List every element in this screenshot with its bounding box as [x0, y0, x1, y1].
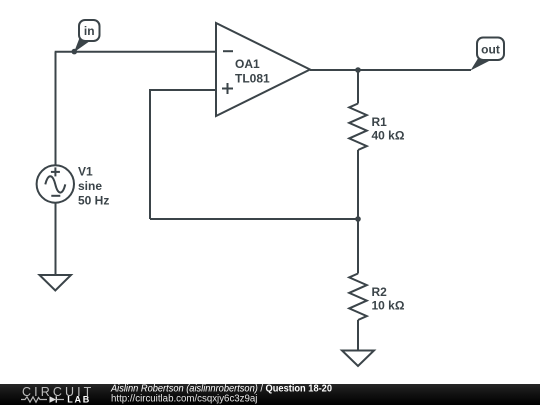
resistor R2: [349, 219, 367, 351]
svg-text:10 kΩ: 10 kΩ: [372, 299, 405, 313]
svg-text:R1: R1: [372, 115, 388, 129]
svg-text:in: in: [84, 24, 95, 38]
node A (in junction dot): [72, 49, 78, 55]
wire: op-amp output to out flag: [310, 69, 471, 71]
wire: op-amp non-inverting input feedback (left and down): [150, 90, 216, 219]
op-amp OA1: [216, 23, 310, 116]
svg-text:R2: R2: [372, 285, 388, 299]
ground (below R2): [342, 351, 374, 367]
wire: feedback horizontal run to divider node: [150, 218, 358, 220]
svg-text:TL081: TL081: [235, 72, 270, 86]
svg-text:OA1: OA1: [235, 57, 260, 71]
node: output junction dot: [355, 67, 361, 73]
R1 name/value labels: [372, 115, 405, 143]
wire: V1 bottom to ground: [55, 203, 57, 275]
svg-text:sine: sine: [78, 179, 102, 193]
svg-text:out: out: [481, 43, 500, 57]
wire: node in down to V1 top: [55, 52, 57, 166]
footer bar: [0, 384, 540, 405]
flag in: [74, 20, 100, 52]
node: feedback divider junction dot: [355, 216, 361, 222]
svg-text:V1: V1: [78, 165, 93, 179]
wire: node in to op-amp inverting input: [55, 51, 216, 53]
svg-text:50 Hz: 50 Hz: [78, 194, 109, 208]
R2 name/value labels: [372, 285, 405, 313]
svg-text:40 kΩ: 40 kΩ: [372, 129, 405, 143]
logo resistor glyph: [21, 397, 47, 402]
resistor R1: [349, 70, 367, 219]
flag out: [471, 38, 505, 71]
ground (below V1): [40, 275, 72, 291]
OA1 name/value labels: [235, 57, 270, 86]
svg-text:LAB: LAB: [67, 395, 91, 405]
logo diode glyph: [50, 396, 57, 402]
voltage source V1: [37, 165, 74, 202]
V1 value labels: [78, 165, 109, 208]
svg-text:http://circuitlab.com/csqxjy6c: http://circuitlab.com/csqxjy6c3z9aj: [111, 393, 257, 404]
